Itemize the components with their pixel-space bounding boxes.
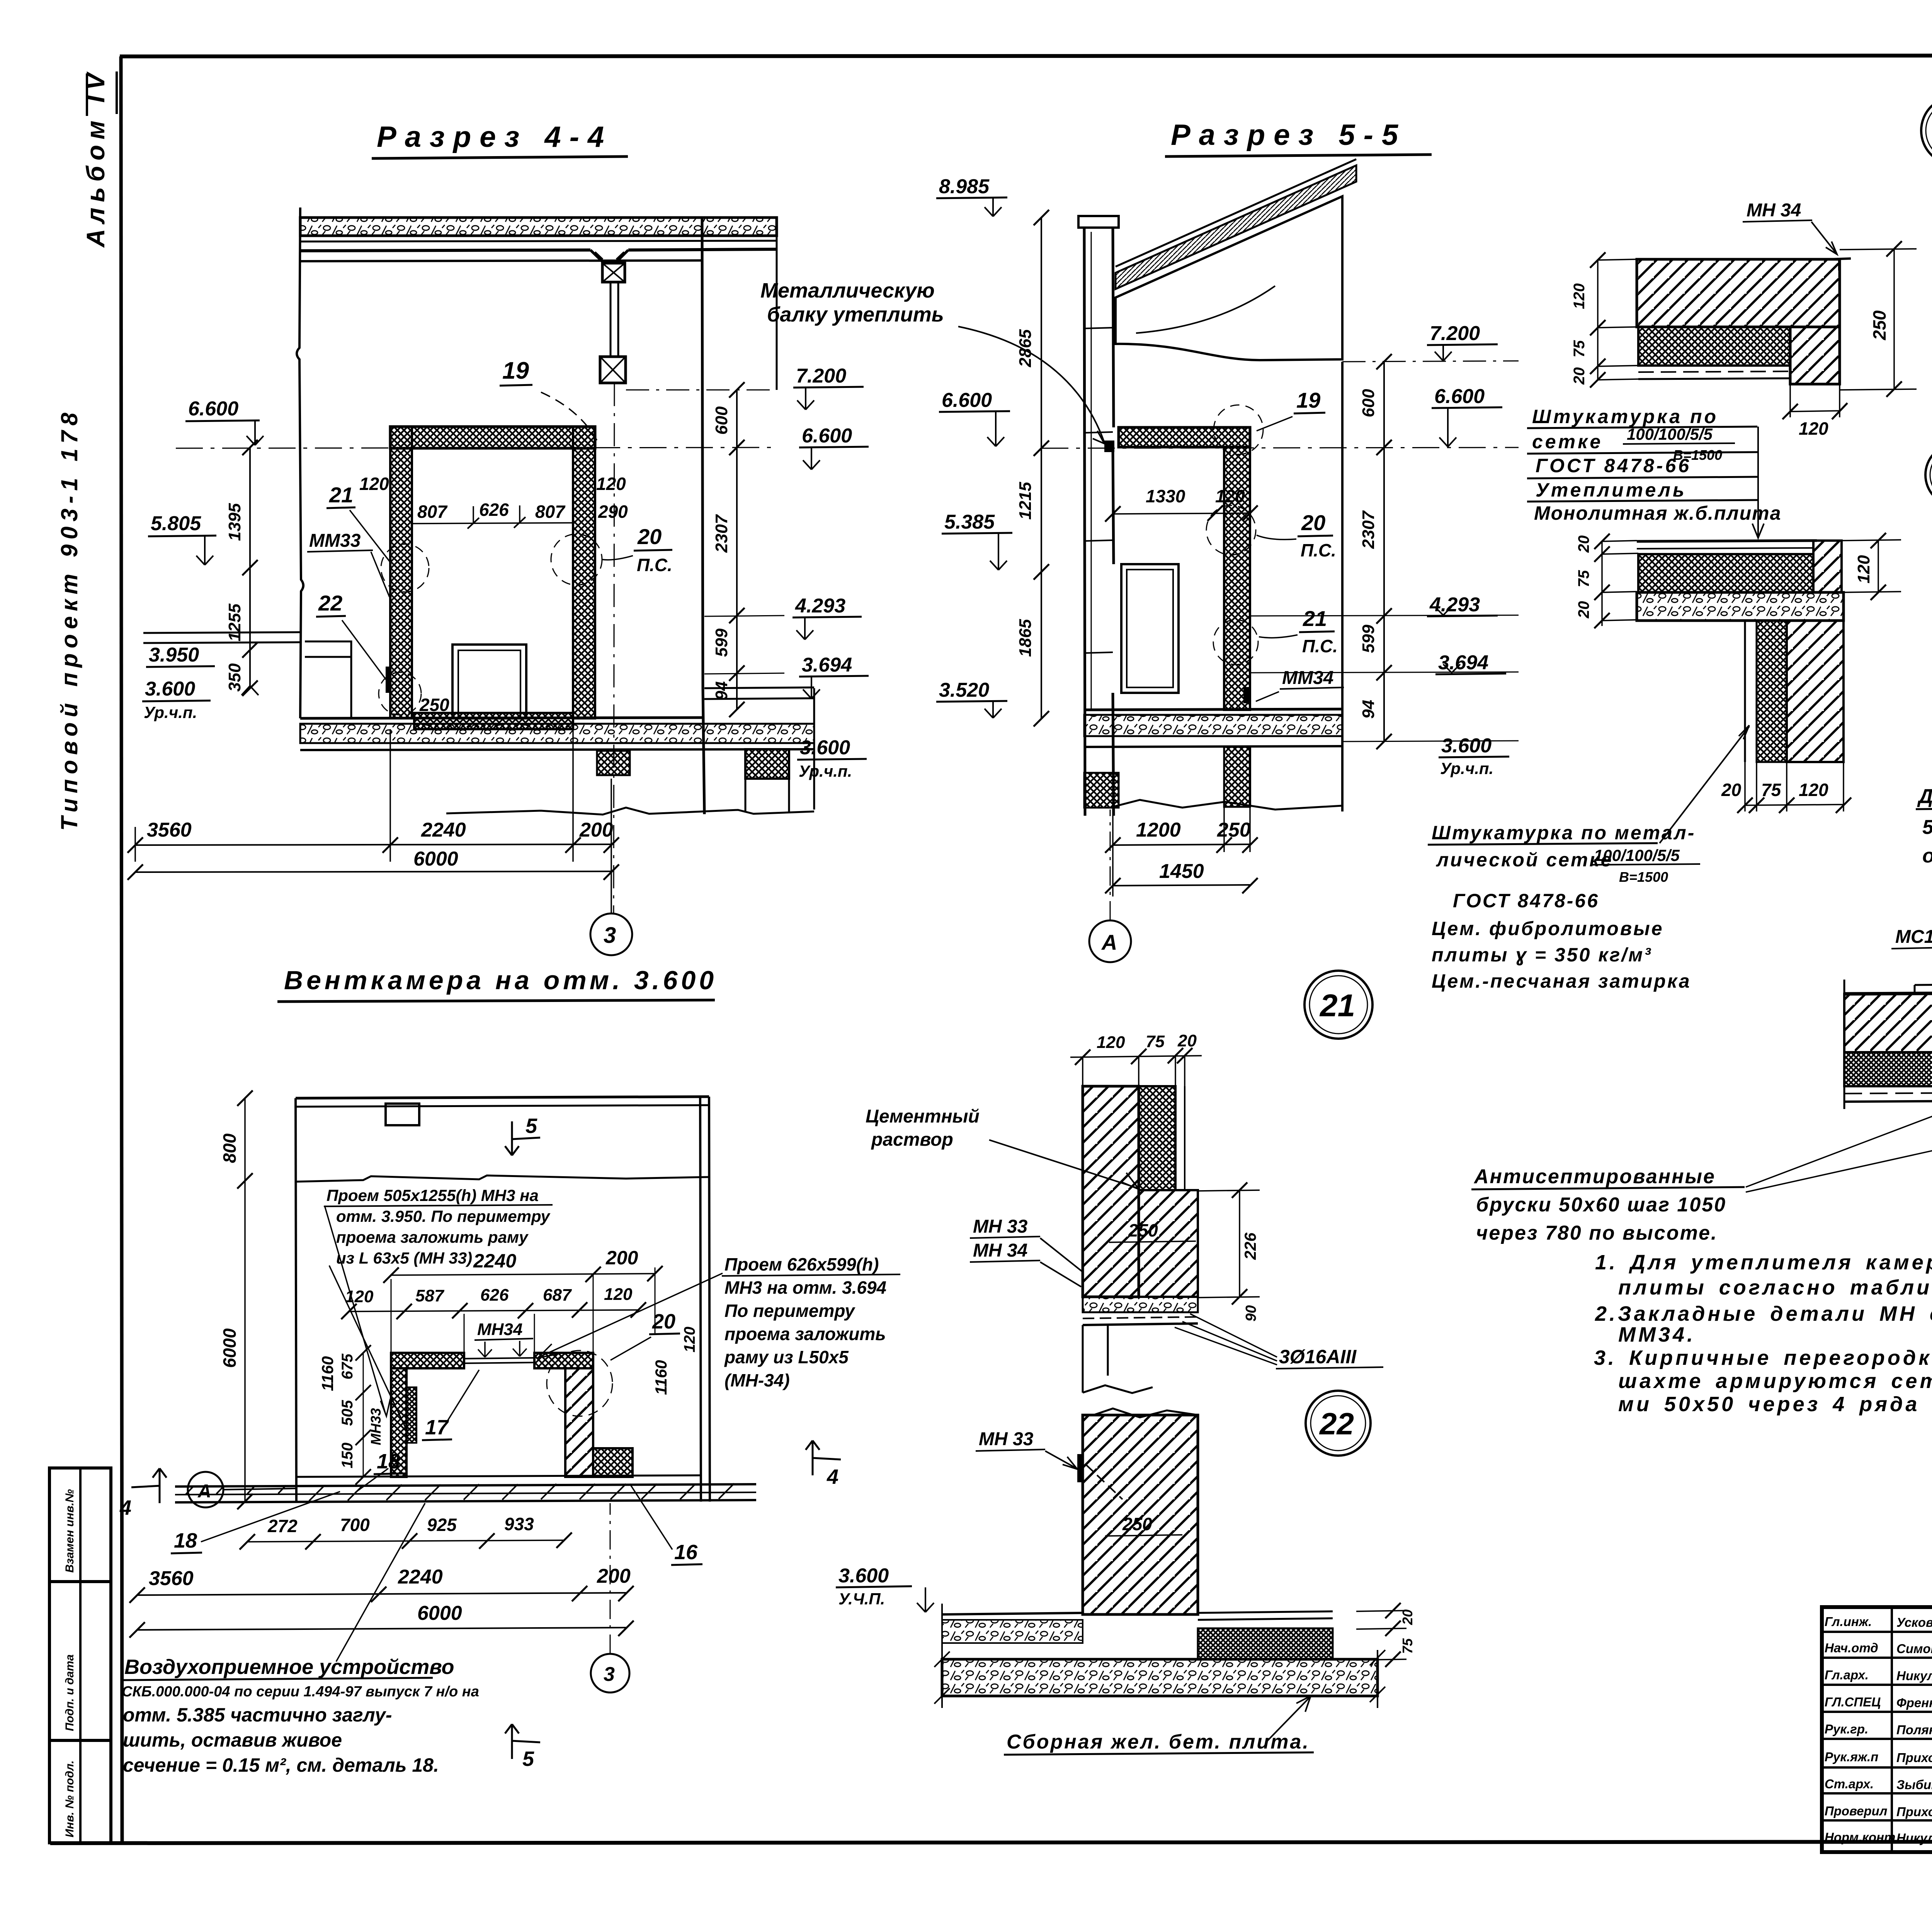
svg-text:плиты ɣ = 350 кг/м³: плиты ɣ = 350 кг/м³	[1432, 944, 1652, 966]
svg-text:600: 600	[1359, 389, 1378, 417]
svg-text:20: 20	[1575, 536, 1592, 553]
det21 sill band	[1083, 1297, 1198, 1312]
svg-text:Проем 505х1255(h) МН3 на: Проем 505х1255(h) МН3 на	[327, 1186, 539, 1204]
det19 stem insulation	[1757, 621, 1787, 762]
svg-text:У.Ч.П.: У.Ч.П.	[838, 1590, 885, 1608]
det19 stem plaster lines	[1745, 621, 1757, 762]
svg-text:3.520: 3.520	[939, 679, 989, 701]
svg-text:22: 22	[318, 591, 342, 615]
svg-text:Ур.ч.п.: Ур.ч.п.	[799, 762, 852, 780]
svg-text:2865: 2865	[1016, 329, 1035, 367]
section55 below floor	[1224, 747, 1250, 807]
svg-text:проема заложить раму: проема заложить раму	[336, 1228, 529, 1246]
svg-text:Норм.конт: Норм.конт	[1825, 1830, 1895, 1844]
svg-text:Металлическую: Металлическую	[760, 279, 935, 302]
svg-text:807: 807	[535, 502, 566, 522]
det22 right floor insulation	[1198, 1628, 1333, 1659]
svg-text:1200: 1200	[1136, 819, 1181, 841]
right lower block	[745, 749, 789, 779]
svg-text:599: 599	[1359, 624, 1378, 653]
left dim chain	[249, 447, 251, 688]
section44 right slab end	[776, 218, 778, 390]
plan interior break line	[296, 1175, 709, 1182]
svg-text:120: 120	[596, 474, 626, 494]
svg-text:Венткамера на отм. 3.600: Венткамера на отм. 3.600	[284, 966, 717, 995]
left border	[121, 56, 122, 1844]
svg-text:19: 19	[1296, 388, 1320, 412]
det21 plaster lines	[1175, 1086, 1185, 1190]
svg-text:250: 250	[1122, 1514, 1152, 1534]
signature rows	[1822, 1632, 1932, 1820]
svg-text:из L 63х5 (МН 33): из L 63х5 (МН 33)	[336, 1249, 472, 1267]
det19 insulation band	[1638, 554, 1813, 592]
plan vertical guide lines	[391, 1267, 655, 1353]
svg-text:3.600: 3.600	[1441, 735, 1492, 757]
svg-text:6.600: 6.600	[802, 425, 852, 447]
svg-text:Штукатурка по метал-: Штукатурка по метал-	[1432, 822, 1696, 844]
svg-text:700: 700	[340, 1515, 370, 1535]
svg-text:П.С.: П.С.	[637, 555, 672, 575]
svg-text:Гл.инж.: Гл.инж.	[1825, 1614, 1872, 1629]
svg-text:75: 75	[1400, 1638, 1415, 1654]
svg-text:3Ø16АIII: 3Ø16АIII	[1279, 1346, 1357, 1368]
svg-text:100/100/5/5: 100/100/5/5	[1594, 846, 1680, 864]
svg-text:раму из L50х5: раму из L50х5	[724, 1347, 849, 1367]
det21 step block 250	[1139, 1190, 1198, 1297]
section44 hanger rod	[611, 282, 618, 357]
plan south wall	[175, 1484, 756, 1487]
det19 dim 120 right	[1842, 540, 1901, 592]
svg-text:925: 925	[427, 1515, 457, 1535]
svg-text:20: 20	[1571, 367, 1588, 385]
svg-text:сетке: сетке	[1532, 431, 1603, 452]
floor slab	[300, 718, 704, 718]
svg-text:5: 5	[526, 1114, 537, 1138]
vent box corner block	[593, 1448, 633, 1477]
svg-text:600: 600	[712, 406, 731, 435]
svg-text:21: 21	[1319, 988, 1355, 1023]
plan left inner dims	[363, 1353, 364, 1477]
chamber top slab	[390, 427, 595, 448]
det22 right dims small	[1356, 1611, 1406, 1660]
svg-text:Взамен инв.№: Взамен инв.№	[63, 1489, 76, 1573]
svg-text:МС1: МС1	[1895, 927, 1932, 947]
svg-text:По периметру: По периметру	[724, 1301, 855, 1321]
svg-text:бруски 50х60 шаг 1050: бруски 50х60 шаг 1050	[1476, 1194, 1726, 1216]
svg-text:120: 120	[604, 1285, 633, 1304]
svg-text:120: 120	[1097, 1033, 1125, 1052]
plan section mark 4 right	[806, 1441, 841, 1475]
svg-text:через 780 по высоте.: через 780 по высоте.	[1476, 1222, 1718, 1244]
det22 left floor	[942, 1613, 1083, 1614]
plan section mark 4 left	[131, 1468, 167, 1503]
svg-text:6000: 6000	[417, 1602, 462, 1624]
svg-text:6.600: 6.600	[1434, 385, 1485, 408]
section44 roof slab	[300, 218, 777, 236]
section44 roof rib V	[590, 250, 628, 263]
svg-text:МН34: МН34	[477, 1320, 522, 1339]
svg-text:отм. 5.385 частично заглу-: отм. 5.385 частично заглу-	[123, 1704, 392, 1726]
svg-text:800: 800	[219, 1133, 240, 1163]
svg-text:Гл.арх.: Гл.арх.	[1825, 1668, 1869, 1682]
svg-text:Альбом IV: Альбом IV	[81, 68, 110, 248]
det17 bottom dim 120	[1790, 384, 1840, 417]
svg-text:226: 226	[1241, 1232, 1259, 1260]
main title block	[1822, 1607, 1932, 1852]
section44 ceiling line	[300, 260, 702, 261]
svg-text:50 х 50 по высоте: 50 х 50 по высоте	[1922, 816, 1932, 839]
svg-text:120: 120	[1215, 486, 1245, 506]
det19 left dim chain	[1602, 541, 1638, 626]
det19 screed band	[1637, 548, 1813, 549]
svg-text:В=1500: В=1500	[1619, 869, 1668, 885]
svg-text:А: А	[1101, 930, 1117, 954]
svg-text:Подп. и дата: Подп. и дата	[63, 1654, 76, 1731]
plan bottom dim row 1	[247, 1540, 564, 1542]
svg-text:3: 3	[604, 1663, 615, 1686]
svg-text:плиты согласно таблице на: плиты согласно таблице на АР-1.	[1618, 1276, 1932, 1299]
det17 right dim 250	[1840, 249, 1917, 390]
plan axis circle A	[188, 1472, 223, 1507]
svg-text:2.Закладные детали МН см. н: 2.Закладные детали МН см. на листах КЖИ-…	[1595, 1302, 1932, 1325]
svg-text:20: 20	[1301, 510, 1325, 535]
MM33 plate	[386, 667, 391, 693]
svg-text:3. Кирпичные перегородки тол: 3. Кирпичные перегородки толщиной 120 мм…	[1594, 1346, 1932, 1369]
small block under chamber right wall	[597, 751, 630, 775]
det21 insulation column	[1139, 1086, 1175, 1190]
vent box right wall	[565, 1368, 593, 1477]
svg-text:шахте армируются сетками и: шахте армируются сетками из проволоки ф …	[1618, 1369, 1932, 1393]
svg-text:1215: 1215	[1016, 482, 1035, 520]
svg-text:Цем.-песчаная затирка: Цем.-песчаная затирка	[1432, 970, 1691, 992]
svg-text:МН 33: МН 33	[973, 1216, 1028, 1237]
svg-text:21: 21	[329, 483, 353, 507]
section55 level 6.600	[1041, 447, 1519, 448]
detail circle 17	[1921, 97, 1932, 165]
svg-text:(МН-34): (МН-34)	[724, 1370, 790, 1390]
signature table columns	[1892, 1607, 1932, 1852]
svg-text:200: 200	[597, 1565, 631, 1587]
det17 insulation band	[1638, 327, 1790, 366]
svg-text:Сборная жел. бет. плита.: Сборная жел. бет. плита.	[1007, 1731, 1310, 1753]
svg-text:ГЛ.СПЕЦ: ГЛ.СПЕЦ	[1825, 1695, 1881, 1709]
svg-text:Штукатурка по: Штукатурка по	[1532, 406, 1718, 427]
svg-text:626: 626	[480, 1286, 509, 1305]
section44 right wall line	[702, 218, 704, 814]
det17 plaster lines	[1638, 371, 1790, 372]
svg-text:Рук.яж.п: Рук.яж.п	[1825, 1750, 1878, 1764]
svg-text:3.950: 3.950	[149, 644, 199, 666]
svg-text:4: 4	[119, 1496, 131, 1519]
chamber window box	[452, 645, 526, 718]
svg-text:Проем 626х599(h): Проем 626х599(h)	[724, 1254, 879, 1274]
det22 slab end ticks	[934, 1604, 1385, 1708]
det20 end verticals	[1844, 968, 1932, 1123]
svg-text:1865: 1865	[1016, 619, 1035, 657]
svg-text:ММ34.: ММ34.	[1618, 1323, 1696, 1346]
svg-text:Приходько: Приходько	[1896, 1805, 1932, 1819]
leader to detail 19 slab	[1752, 427, 1764, 538]
svg-text:ММ33: ММ33	[309, 531, 361, 551]
svg-text:1160: 1160	[652, 1360, 670, 1395]
vent box top wall left	[391, 1353, 464, 1368]
svg-text:807: 807	[417, 502, 448, 522]
top border	[120, 55, 1932, 56]
section44 hanger top block	[602, 263, 625, 282]
detail circle 22	[1306, 1391, 1371, 1456]
svg-text:оконного проема: оконного проема	[1922, 845, 1932, 867]
label Деревянный брус	[1916, 669, 1932, 867]
svg-text:100/100/5/5: 100/100/5/5	[1627, 425, 1713, 443]
svg-text:МН 34: МН 34	[973, 1240, 1027, 1261]
svg-text:2240: 2240	[421, 819, 466, 841]
svg-text:20: 20	[1721, 780, 1742, 800]
svg-text:587: 587	[415, 1286, 445, 1305]
det20 plaster lines	[1844, 1090, 1932, 1094]
svg-text:675: 675	[339, 1354, 356, 1379]
svg-text:СКБ.000.000-04 по серии 1.494-: СКБ.000.000-04 по серии 1.494-97 выпуск …	[122, 1684, 479, 1700]
chamber left wall	[390, 427, 412, 718]
svg-text:Ускова: Ускова	[1896, 1615, 1932, 1630]
svg-text:626: 626	[479, 500, 509, 520]
svg-text:МН 33: МН 33	[979, 1429, 1034, 1449]
svg-text:Ур.ч.п.: Ур.ч.п.	[144, 703, 197, 721]
svg-text:МН33: МН33	[368, 1408, 384, 1445]
label MM34 (5-5)	[1243, 687, 1251, 703]
section44 level line 7.200	[626, 390, 777, 391]
plan north wall	[296, 1097, 709, 1098]
det22 right floor screed	[1198, 1611, 1333, 1620]
bottom dims 5-5	[1113, 844, 1250, 845]
section55 floor slab	[1084, 709, 1342, 710]
svg-text:8.985: 8.985	[939, 175, 990, 198]
svg-text:19: 19	[502, 357, 529, 384]
svg-text:7.200: 7.200	[796, 365, 846, 387]
svg-text:94: 94	[1359, 700, 1378, 719]
section55 parapet cap	[1078, 216, 1119, 228]
svg-text:шить, оставив живое: шить, оставив живое	[123, 1729, 342, 1751]
svg-text:МН3 на отм. 3.694: МН3 на отм. 3.694	[724, 1277, 886, 1298]
leader to det19 stem	[1660, 725, 1749, 843]
plan dims second row	[349, 1310, 638, 1311]
svg-text:22: 22	[1319, 1407, 1354, 1441]
det21 226 dim	[1198, 1190, 1260, 1298]
bottom dim row 2	[135, 871, 611, 872]
det22 МН33 plate	[1077, 1454, 1083, 1482]
svg-text:отм. 3.950. По периметру: отм. 3.950. По периметру	[336, 1207, 551, 1225]
svg-text:Разрез 4-4: Разрез 4-4	[377, 121, 612, 153]
det19 stem brick	[1787, 621, 1844, 762]
svg-text:3.694: 3.694	[802, 654, 852, 676]
bottom-left stamp table	[49, 1468, 111, 1843]
plan bottom dim row 3	[137, 1628, 626, 1630]
svg-text:Воздухоприемное устройство: Воздухоприемное устройство	[124, 1655, 454, 1679]
det21 brick column	[1083, 1086, 1139, 1297]
svg-text:3560: 3560	[147, 819, 192, 841]
svg-text:272: 272	[267, 1516, 298, 1536]
right dim chain	[736, 390, 738, 709]
vent box left wall	[391, 1368, 406, 1477]
svg-text:МН 34: МН 34	[1747, 200, 1801, 221]
svg-text:687: 687	[543, 1286, 572, 1305]
axis circle 3	[590, 913, 632, 955]
svg-text:16: 16	[674, 1541, 698, 1564]
svg-text:Приходько: Приходько	[1896, 1750, 1932, 1765]
svg-text:150: 150	[339, 1442, 356, 1468]
svg-text:6.600: 6.600	[188, 398, 238, 420]
svg-text:18: 18	[174, 1529, 197, 1552]
svg-text:Проверил: Проверил	[1825, 1804, 1887, 1818]
plan axis circle 3	[591, 1654, 629, 1692]
svg-text:ГОСТ 8478-66: ГОСТ 8478-66	[1536, 455, 1691, 476]
det17 brick band	[1637, 259, 1840, 327]
svg-text:Разрез 5-5: Разрез 5-5	[1171, 119, 1406, 151]
svg-text:5.385: 5.385	[944, 511, 995, 533]
svg-text:1450: 1450	[1159, 860, 1204, 883]
svg-text:4.293: 4.293	[1429, 594, 1480, 616]
svg-text:3560: 3560	[149, 1567, 194, 1590]
bottom border	[50, 1841, 1932, 1843]
svg-text:200: 200	[579, 819, 613, 841]
bottom dim row 1	[135, 844, 611, 845]
vent box opening lines	[464, 1358, 534, 1363]
svg-text:балку утеплить: балку утеплить	[767, 303, 944, 326]
svg-text:90: 90	[1243, 1305, 1259, 1322]
vent box inner strips	[406, 1387, 417, 1443]
plan east edge	[700, 1097, 710, 1502]
svg-text:ММ34: ММ34	[1282, 668, 1333, 688]
svg-text:1330: 1330	[1146, 486, 1185, 506]
svg-text:5: 5	[522, 1747, 534, 1771]
svg-text:Деревянный брус: Деревянный брус	[1917, 785, 1932, 808]
detail circle 21	[1304, 971, 1372, 1039]
svg-text:75: 75	[1146, 1032, 1165, 1051]
svg-text:Антисептированные: Антисептированные	[1473, 1165, 1716, 1188]
right ledge at 3.600	[704, 687, 814, 699]
det19 slab top line	[1637, 541, 1817, 541]
vent box top wall right	[534, 1353, 593, 1368]
det22 wall column	[1083, 1415, 1198, 1614]
svg-text:4: 4	[827, 1465, 838, 1488]
svg-text:1255: 1255	[225, 604, 244, 641]
svg-text:120: 120	[359, 474, 389, 494]
section55 roof top line	[1116, 159, 1356, 267]
svg-text:250: 250	[419, 695, 449, 715]
svg-text:505: 505	[339, 1400, 356, 1426]
svg-text:250: 250	[1128, 1220, 1158, 1240]
section55 wall brick joints	[1084, 328, 1113, 653]
svg-text:П.С.: П.С.	[1301, 540, 1336, 560]
det21 wall below	[1083, 1325, 1108, 1393]
svg-text:5.805: 5.805	[151, 512, 201, 535]
svg-text:1395: 1395	[225, 503, 244, 541]
axis circle A (5-5)	[1089, 920, 1131, 962]
svg-text:2307: 2307	[712, 514, 731, 553]
det20 brick band left	[1844, 994, 1932, 1052]
svg-text:1. Для утеплителя камеры пр: 1. Для утеплителя камеры принимать цемен…	[1595, 1251, 1932, 1274]
svg-text:раствор: раствор	[871, 1129, 953, 1150]
svg-text:290: 290	[598, 502, 628, 522]
svg-text:Типовой проект 903-1 178: Типовой проект 903-1 178	[56, 408, 82, 831]
svg-text:4.293: 4.293	[795, 595, 845, 617]
det20 insulation band left	[1844, 1052, 1932, 1086]
section55 window box	[1121, 564, 1179, 693]
section55 chamber top slab	[1119, 427, 1250, 447]
section55 roof slab	[1116, 165, 1356, 289]
det22 embed dash	[1086, 1465, 1122, 1499]
det19 slab body	[1637, 592, 1844, 621]
svg-text:Инв. № подл.: Инв. № подл.	[63, 1761, 76, 1837]
section55 chamber right wall	[1224, 447, 1250, 710]
section44 level line 6.600	[176, 447, 777, 448]
det20 top line	[1844, 991, 1932, 994]
svg-text:120: 120	[1799, 418, 1828, 439]
plan section mark 5 top	[505, 1121, 540, 1155]
svg-text:сечение = 0.15 м², см. деталь: сечение = 0.15 м², см. деталь 18.	[123, 1754, 439, 1776]
svg-text:120: 120	[1571, 283, 1588, 309]
svg-text:А: А	[197, 1481, 211, 1502]
svg-text:Симонов: Симонов	[1896, 1641, 1932, 1656]
det17 corner leg	[1790, 327, 1840, 384]
det20 МС1 plate left	[1915, 984, 1932, 993]
svg-text:20: 20	[1400, 1609, 1415, 1625]
svg-text:Рук.гр.: Рук.гр.	[1825, 1722, 1868, 1736]
svg-text:3.600: 3.600	[145, 678, 195, 700]
det19 wall block above	[1813, 541, 1842, 592]
svg-text:250: 250	[1869, 310, 1889, 340]
plan left outer dims	[244, 1098, 246, 1502]
section55 foundation block	[1084, 773, 1119, 808]
svg-text:94: 94	[712, 681, 731, 700]
chamber floor band	[414, 713, 573, 729]
svg-text:Френкель: Френкель	[1896, 1696, 1932, 1710]
svg-text:Зыбина: Зыбина	[1896, 1778, 1932, 1792]
svg-text:75: 75	[1575, 570, 1592, 587]
svg-text:Полякова: Полякова	[1896, 1723, 1932, 1737]
svg-text:75: 75	[1571, 340, 1588, 357]
svg-text:3: 3	[604, 923, 616, 948]
svg-text:6.600: 6.600	[942, 389, 992, 412]
svg-text:2307: 2307	[1359, 510, 1378, 549]
svg-text:75: 75	[1761, 780, 1782, 800]
left dim chain 5-5	[1041, 218, 1042, 719]
section44 left break line	[297, 208, 303, 718]
svg-text:Нач.отд: Нач.отд	[1825, 1641, 1878, 1655]
det19 bottom dims	[1745, 762, 1844, 811]
svg-text:ГОСТ 8478-66: ГОСТ 8478-66	[1453, 890, 1599, 912]
svg-text:Ст.арх.: Ст.арх.	[1825, 1777, 1874, 1791]
svg-text:6000: 6000	[219, 1328, 240, 1368]
svg-text:17: 17	[425, 1416, 449, 1439]
svg-text:проема заложить: проема заложить	[724, 1324, 886, 1344]
det17 left dim chain	[1598, 259, 1638, 381]
svg-text:3.694: 3.694	[1438, 651, 1488, 674]
svg-text:1160: 1160	[318, 1356, 337, 1391]
det22 bottom slab	[942, 1659, 1378, 1696]
svg-text:120: 120	[1799, 780, 1828, 800]
svg-text:Никулин: Никулин	[1896, 1831, 1932, 1845]
plan top-left box	[386, 1104, 419, 1125]
svg-text:21: 21	[1303, 606, 1327, 631]
plan section mark 5 bottom	[505, 1724, 540, 1759]
svg-text:Монолитная ж.б.плита: Монолитная ж.б.плита	[1534, 502, 1781, 524]
svg-text:Никулин: Никулин	[1896, 1669, 1932, 1683]
svg-text:7.200: 7.200	[1430, 322, 1480, 345]
section55 roof beam	[1116, 196, 1342, 360]
svg-text:2240: 2240	[398, 1566, 443, 1588]
svg-text:20: 20	[637, 524, 662, 549]
svg-text:Ур.ч.п.: Ур.ч.п.	[1440, 759, 1493, 777]
